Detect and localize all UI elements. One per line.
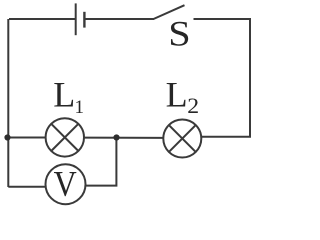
lamp L2 cross xyxy=(169,125,196,152)
svg-text:V: V xyxy=(54,165,77,204)
wire left vertical xyxy=(7,19,9,187)
voltmeter V circle xyxy=(46,164,86,204)
lamp L1 circle xyxy=(46,118,84,156)
battery B1 long plate xyxy=(75,3,77,35)
wire bottom-left to voltmeter xyxy=(8,186,46,188)
wire node A to lamp L1 xyxy=(8,137,46,139)
svg-text:1: 1 xyxy=(75,97,85,118)
svg-text:L: L xyxy=(166,75,188,115)
wire battery to switch xyxy=(86,18,155,20)
wire switch to top-right corner xyxy=(194,18,251,20)
svg-text:S: S xyxy=(168,15,190,55)
wire node B down to voltmeter xyxy=(86,138,117,186)
svg-text:2: 2 xyxy=(187,94,199,118)
node B junction dot xyxy=(113,134,119,140)
wire top-left segment xyxy=(9,18,75,20)
wire lamp L1 to node B to lamp L2 xyxy=(84,137,163,139)
switch S lever xyxy=(154,5,185,19)
wire right vertical xyxy=(201,18,250,137)
node A junction dot xyxy=(4,134,10,140)
svg-text:L: L xyxy=(53,75,75,115)
lamp L2 circle xyxy=(163,120,201,158)
lamp L1 cross xyxy=(51,124,78,151)
battery B1 short plate xyxy=(83,12,85,28)
